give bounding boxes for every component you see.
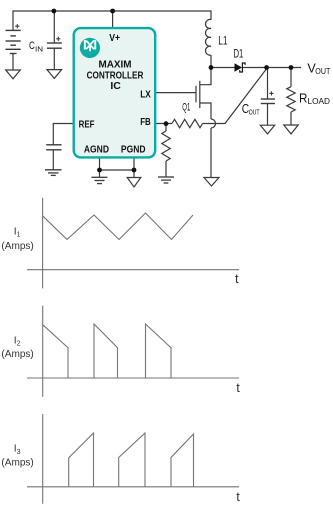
svg-text:1: 1 (17, 230, 21, 239)
svg-text:LOAD: LOAD (308, 96, 331, 106)
svg-text:AGND: AGND (84, 145, 109, 156)
svg-text:CONTROLLER: CONTROLLER (87, 70, 144, 81)
svg-text:L1: L1 (218, 36, 227, 48)
svg-text:OUT: OUT (315, 66, 330, 76)
svg-text:t: t (235, 271, 239, 286)
svg-text:MAXIM: MAXIM (99, 60, 132, 71)
svg-text:D1: D1 (234, 48, 244, 60)
svg-text:(Amps): (Amps) (1, 240, 33, 252)
svg-text:PGND: PGND (121, 145, 146, 156)
svg-text:FB: FB (140, 117, 151, 128)
svg-text:REF: REF (79, 119, 95, 130)
svg-text:OUT: OUT (249, 108, 260, 117)
svg-text:3: 3 (17, 447, 21, 456)
svg-text:LX: LX (140, 90, 151, 101)
svg-text:IC: IC (110, 81, 121, 92)
svg-text:V+: V+ (109, 33, 120, 44)
svg-text:IN: IN (35, 45, 43, 54)
svg-text:Q1: Q1 (182, 101, 190, 113)
svg-text:(Amps): (Amps) (1, 457, 33, 469)
svg-text:t: t (236, 489, 240, 504)
svg-text:R: R (299, 91, 307, 106)
svg-text:(Amps): (Amps) (1, 348, 33, 360)
svg-text:2: 2 (17, 339, 21, 348)
svg-text:t: t (236, 380, 240, 395)
